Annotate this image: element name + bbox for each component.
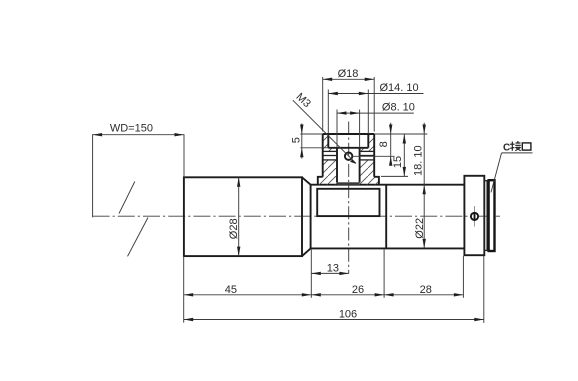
counterbore Ø14.1 walls [327,134,329,148]
dim Ø14.10 [328,82,423,133]
hole bottom dark band [337,182,360,185]
dim Ø8.10 [337,102,415,148]
svg-text:Ø8. 10: Ø8. 10 [382,102,415,114]
main barrel Ø28 [184,177,302,256]
outer walls [322,134,324,177]
break symbol on centerline [119,182,148,257]
svg-text:Ø18: Ø18 [338,68,359,80]
horizontal centerline [93,215,500,217]
chamfer bottom [302,248,311,256]
svg-text:28: 28 [420,284,432,296]
set screw strips right [360,151,375,160]
ring 1 [484,181,487,251]
top face [323,133,375,135]
dim 106 [184,256,484,323]
svg-text:Ø14. 10: Ø14. 10 [380,82,419,94]
M3 screw circle [345,153,352,160]
counterbore bottom [328,147,368,149]
vertical centerline of top port [348,122,350,274]
svg-text:Ø22: Ø22 [414,218,426,239]
glyph 口 [522,143,531,150]
svg-text:106: 106 [339,309,357,321]
dim Ø22 [414,218,426,248]
flange [464,176,484,255]
C-mount label [491,141,533,192]
svg-text:45: 45 [225,284,237,296]
M3 leader [293,100,356,163]
svg-text:13: 13 [327,262,339,274]
dim WD=150 [93,123,184,218]
svg-text:C: C [503,142,510,153]
dim Ø28 [228,177,240,256]
dim 13 [311,250,349,298]
window rectangle on block [317,189,379,216]
hole Ø8.1 walls [336,148,338,183]
dim 15 [381,134,408,176]
top port: hatched regions [312,128,344,190]
svg-text:8: 8 [378,141,390,147]
svg-text:26: 26 [352,284,364,296]
dim 18.10 and Ø22 shared line [374,123,427,249]
svg-text:WD=150: WD=150 [110,123,153,135]
glyph 接 [510,141,521,151]
block/barrel boundary [385,185,387,249]
dim 5 [291,124,329,159]
svg-text:18. 10: 18. 10 [413,145,425,176]
chamfer top [302,177,311,184]
top port outline [318,134,379,185]
foot step [318,177,323,185]
dims 45 26 28 [184,250,464,323]
dim Ø18 [323,68,375,131]
mid body (block + barrel Ø22) [311,185,465,249]
svg-text:15: 15 [392,156,404,168]
flange screw [471,206,478,227]
svg-text:5: 5 [291,137,303,143]
dim 8 [353,123,395,166]
svg-text:Ø28: Ø28 [228,218,240,239]
set screw strips left [323,151,337,160]
C-mount thread ring [489,180,495,251]
